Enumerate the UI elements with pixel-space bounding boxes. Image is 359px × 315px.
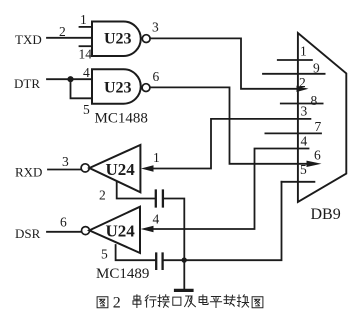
wire capacitor C2 to pin5 riser [164, 182, 282, 260]
glyph 口 [173, 297, 181, 305]
DB9 pin 1 stub [278, 59, 312, 61]
svg-text:14: 14 [79, 47, 93, 62]
glyph 图 (2nd) [252, 297, 263, 308]
glyph 接 [158, 295, 169, 308]
pin 1 stub U23a [80, 26, 93, 28]
inverter U24a body [89, 145, 140, 192]
wire U24a pin 2 to capacitor C1 [117, 182, 155, 199]
DB9 pin 7 stub [265, 132, 321, 134]
svg-text:5: 5 [300, 162, 307, 177]
svg-text:RXD: RXD [15, 165, 42, 180]
arrow into DB9 pin 2 [297, 86, 309, 92]
svg-text:U24: U24 [106, 160, 136, 179]
glyph 转 [224, 295, 235, 306]
svg-text:1: 1 [80, 12, 87, 27]
svg-text:4: 4 [153, 212, 160, 227]
svg-text:9: 9 [313, 61, 320, 76]
capacitor C2 [156, 254, 162, 269]
wire DB9 pin3 to U24a pin 1 [152, 119, 310, 169]
arrow into DB9 pin 6 [307, 161, 322, 167]
capacitor C1 [156, 191, 163, 207]
nand gate U23b body [92, 69, 141, 104]
wire U24b pin 5 to capacitor C2 [116, 245, 155, 260]
svg-text:6: 6 [314, 148, 321, 163]
arrow into U24a pin 1 [141, 165, 154, 171]
glyph 图 [97, 297, 108, 308]
svg-text:DB9: DB9 [311, 206, 341, 223]
bubble U24b input [82, 227, 90, 235]
wire ground node down [183, 260, 185, 289]
glyph 换 [237, 295, 248, 307]
DB9 pin 9 stub [263, 73, 325, 75]
DB9 shell [298, 33, 346, 202]
inverter U24b body [89, 207, 140, 253]
arrow into U24b pin 4 [141, 226, 154, 232]
glyph 行 [145, 295, 156, 307]
svg-text:7: 7 [315, 119, 322, 134]
DB9 pin 5 stub [282, 181, 315, 183]
svg-text:TXD: TXD [15, 32, 42, 47]
svg-text:DTR: DTR [14, 76, 40, 91]
svg-text:2: 2 [299, 75, 306, 90]
glyph 平 [210, 297, 221, 308]
svg-text:1: 1 [300, 44, 307, 59]
wire DTR loop to pin 5 [71, 79, 93, 98]
DB9 pin 8 stub [281, 103, 323, 105]
svg-text:3: 3 [62, 154, 69, 169]
wire U23b output to DB9 pin6 [150, 87, 307, 163]
svg-text:8: 8 [311, 93, 318, 108]
wire DSR from bubble [47, 231, 81, 233]
svg-text:1: 1 [153, 150, 160, 165]
wire DTR to U23b pin 4 [47, 78, 92, 80]
nand gate U23a body [92, 22, 141, 57]
svg-text:3: 3 [152, 20, 159, 35]
wire TXD to U23a pin 2 [47, 37, 92, 39]
svg-text:MC1488: MC1488 [95, 111, 148, 127]
svg-text:3: 3 [301, 103, 308, 118]
bubble U23a output [142, 35, 150, 43]
junction dot DTR [67, 76, 73, 82]
glyph 串 [133, 295, 141, 308]
wire RXD from bubble [48, 169, 81, 171]
svg-text:5: 5 [101, 247, 108, 262]
glyph 及 [185, 296, 196, 307]
svg-text:U24: U24 [106, 221, 136, 240]
junction dot ground node [182, 257, 187, 262]
caption: 图 2 串行接口及电平转换图 [97, 294, 263, 311]
svg-text:6: 6 [60, 215, 67, 230]
svg-text:4: 4 [83, 65, 90, 80]
wire U23a output to DB9 pin2 [150, 38, 298, 88]
pin 14 stub U23a [80, 45, 93, 47]
svg-text:MC1489: MC1489 [96, 266, 149, 282]
svg-text:2: 2 [99, 188, 106, 203]
glyph 电 [199, 295, 208, 305]
svg-text:6: 6 [153, 69, 160, 84]
wire capacitor C1 to ground rail [164, 199, 184, 261]
svg-text:2: 2 [113, 294, 121, 311]
bubble U24a input [81, 164, 89, 172]
svg-text:U23: U23 [104, 31, 132, 48]
svg-text:4: 4 [301, 134, 308, 149]
svg-text:U23: U23 [104, 80, 132, 97]
svg-text:5: 5 [83, 102, 90, 117]
ground [176, 289, 193, 292]
wire DB9 pin4 to U24b pin 4 [152, 149, 309, 230]
svg-text:DSR: DSR [15, 226, 41, 241]
svg-text:2: 2 [59, 24, 66, 39]
bubble U23b output [142, 84, 150, 92]
